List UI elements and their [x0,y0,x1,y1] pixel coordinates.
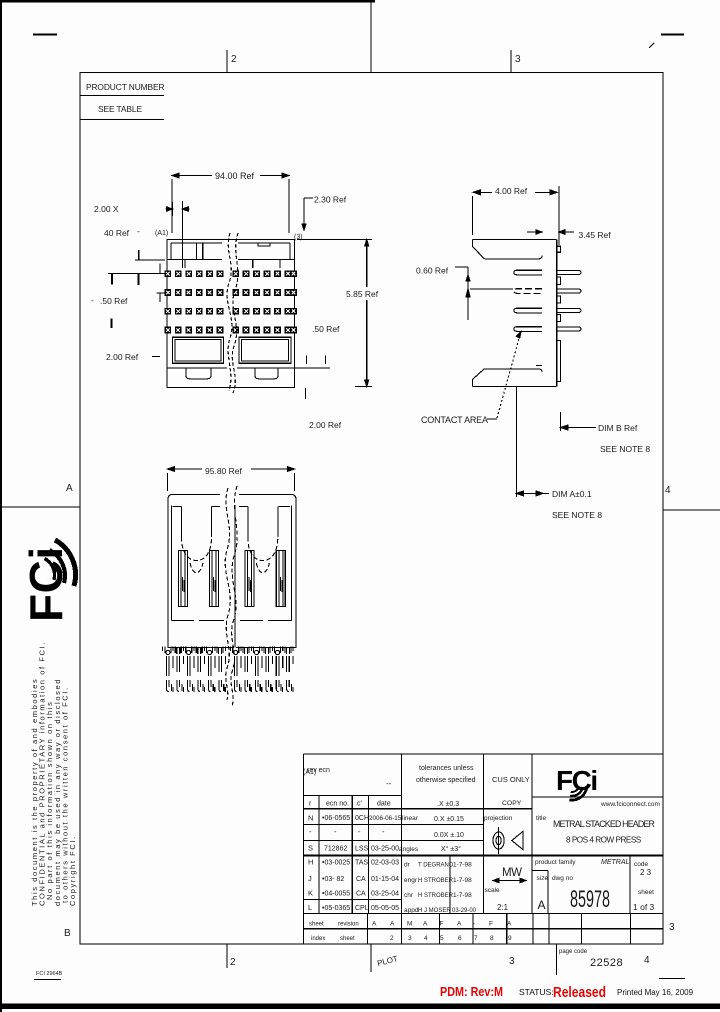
svg-text:2: 2 [390,935,394,942]
svg-text:A: A [66,483,73,494]
svg-text:5: 5 [440,935,444,942]
dim .50 row bracket [156,293,165,302]
svg-text:•05-0365: •05-0365 [322,905,350,912]
scan edge bar top [0,0,375,2]
vert: size-dwg divider [547,871,549,914]
shroud key tab left [197,243,203,260]
vert: projection cell right [531,754,533,914]
svg-text:dr: dr [404,862,411,869]
svg-text:H STROBER: H STROBER [418,878,454,884]
side body top wall [473,239,557,241]
svg-text:-: - [137,226,140,236]
projection symbol inner [496,836,501,844]
product number box line1 [80,95,164,97]
blade pin 4 [514,327,542,332]
slot 4 pin tip [280,577,282,592]
shroud floor line left [167,259,222,261]
svg-text:H STROBER: H STROBER [418,893,454,899]
dim 4.00 arrowheads [473,190,557,195]
svg-text:3: 3 [408,935,412,942]
ecn row line3 / tol line3 [304,839,484,841]
svg-text:--: -- [386,779,392,788]
svg-text:.X ±0.3: .X ±0.3 [437,801,459,808]
dim 5.85 arrowheads [365,240,369,387]
pitch dim tick [171,202,173,216]
sheet strip dividers [368,914,631,944]
svg-text:DIM B Ref: DIM B Ref [598,423,638,433]
svg-text:-: - [91,295,94,305]
front view body outline [167,240,295,388]
title block bottom of main [304,913,664,915]
press tab 1-2 [557,277,561,285]
confidential text vertical left margin [30,641,77,906]
dim 5.00 arrow ticks [112,274,139,285]
svg-text:CA: CA [356,891,366,898]
svg-text:22528: 22528 [590,957,623,969]
svg-text:tolerances unless: tolerances unless [419,765,474,772]
svg-text:title: title [536,815,547,822]
svg-text:DIM A±0.1: DIM A±0.1 [552,489,592,499]
contact row 3 [164,308,171,315]
slot 3 pin tip [249,577,251,592]
ecn table top [304,794,402,796]
svg-text:revision: revision [338,922,359,928]
standoff notch left [186,368,211,379]
U pocket right flares [239,506,290,508]
svg-text:8: 8 [490,935,494,942]
svg-text:712862: 712862 [324,846,347,853]
svg-text:linear: linear [402,815,419,822]
dim 95.80 arrowheads [168,467,295,472]
svg-text:sheet: sheet [340,936,355,942]
shroud inner top wall right [238,243,290,246]
side body left edge bottom [473,369,485,387]
svg-text:.50 Ref: .50 Ref [100,296,128,306]
svg-text:95.80 Ref: 95.80 Ref [205,466,242,476]
contact area leader dotted [497,335,520,418]
vert: tolerance cell right [482,754,484,914]
svg-text:A: A [423,921,428,928]
svg-text:rev ecn: rev ecn [307,767,330,774]
registration dash top left [33,34,57,36]
svg-text:page code: page code [559,949,588,955]
svg-text:01-15-04: 01-15-04 [371,876,399,883]
svg-text:PRODUCT NUMBER: PRODUCT NUMBER [86,82,165,92]
svg-text:2.00 X: 2.00 X [94,204,119,214]
vert: dr-date divider [449,855,451,913]
svg-text:T DEGRAND: T DEGRAND [418,863,454,869]
svg-text:2006-06-15: 2006-06-15 [369,815,402,822]
svg-text:L: L [308,903,312,912]
svg-text:3: 3 [509,956,515,967]
side body bottom wall [473,385,557,387]
svg-text:0CH: 0CH [355,815,369,822]
contact slot 1 [178,551,187,607]
dim 5.00 extension line upper [135,250,165,260]
svg-text:ecn no.: ecn no. [326,801,349,808]
ecn row line2 / tol line2 [304,824,484,826]
svg-text:COPY: COPY [502,800,522,807]
U pocket right bottom [248,537,278,573]
svg-text:9: 9 [508,935,512,942]
blade pin 2 [514,289,542,294]
leader 2.00 left [152,356,160,358]
shroud inner top wall left [171,242,222,244]
svg-text:PDM: Rev:M: PDM: Rev:M [440,985,503,999]
svg-text:FCI 2964B: FCI 2964B [36,971,63,977]
svg-text:-: - [382,827,385,836]
contact area leader dash [487,418,497,420]
svg-text:Copyright FCI.: Copyright FCI. [68,835,77,906]
through pin 1 [557,270,581,274]
svg-text:SEE NOTE 8: SEE NOTE 8 [552,510,602,520]
dim 94.00 line [172,175,289,177]
dim 4.00 extension right [558,186,560,245]
break line left wave [227,233,232,391]
svg-text:A: A [390,921,395,928]
side body left edge top [473,240,485,259]
svg-text:03-29-00: 03-29-00 [452,908,477,914]
vert: code-sheet col [629,855,631,913]
zone tick top 2 [226,50,228,72]
svg-text:2: 2 [231,54,237,65]
contact row 4 [164,327,171,334]
fold tick bottom center [370,944,372,972]
svg-text:•06-0565: •06-0565 [322,815,350,822]
svg-text:(3): (3) [294,234,303,241]
through pin 2 [557,289,581,293]
svg-text:A: A [372,921,377,928]
svg-text:F: F [489,921,493,928]
svg-text:1-7-98: 1-7-98 [453,862,472,869]
cavity floor bottom [484,365,542,372]
FCI logo left margin arcs [45,540,76,586]
vert: major divider [400,754,402,944]
svg-text:7: 7 [474,935,478,942]
U pocket left bottom [182,537,212,573]
svg-text:1 of 3: 1 of 3 [633,902,655,912]
break wave left [225,488,230,700]
svg-text:03-25-04: 03-25-04 [371,891,399,898]
svg-text:c': c' [357,801,362,808]
standoff notch right [255,368,278,379]
press tab top [557,246,561,252]
svg-text:4: 4 [644,955,650,966]
slot 1 pin tip [182,577,184,592]
blade pin 1 [514,270,542,275]
svg-text:METRAL STACKED HEADER: METRAL STACKED HEADER [553,819,654,829]
svg-text:angles: angles [399,846,419,853]
FCI logo title block [556,765,597,800]
svg-text:3: 3 [515,54,521,65]
svg-text:4: 4 [665,485,671,496]
title block page-code tick [556,944,558,975]
scan edge bar bottom [0,1004,720,1010]
dim 5.00 extension line lower [108,264,167,274]
svg-text:-: - [309,827,312,836]
U pocket right sides [248,507,278,538]
dim 3.45 arrows [527,230,574,234]
svg-text:40 Ref: 40 Ref [104,228,130,238]
svg-text:appd: appd [404,907,419,914]
svg-text:0.X ±0.15: 0.X ±0.15 [434,816,464,823]
size header line [531,870,548,872]
svg-text:PLOT: PLOT [376,954,399,968]
svg-text:CUS ONLY: CUS ONLY [492,775,530,784]
dim 2.00 foot extension [305,388,307,399]
vert: rev letter col [318,795,320,913]
dim tick lower left [111,319,113,329]
svg-text:3: 3 [669,922,675,933]
svg-text:2.30 Ref: 2.30 Ref [314,195,347,205]
vert: chk col [367,795,369,913]
svg-text:K: K [308,889,313,898]
contact slot 3 [245,551,254,607]
logo cell bottom [532,796,663,798]
press tab 2-3 [557,296,561,303]
svg-text:Released: Released [553,985,606,1001]
svg-text:-: - [334,827,337,836]
printed date overline [659,978,685,980]
blade pin 3 [514,308,542,313]
svg-text:METRAL: METRAL [601,859,630,866]
zone divider right [663,509,720,511]
svg-text:size: size [537,875,549,882]
svg-text:S: S [308,844,313,853]
form number underline [34,979,61,981]
svg-text:date: date [377,801,391,808]
svg-text:2.00 Ref: 2.00 Ref [309,420,342,430]
ecn row line K-L [304,898,402,900]
svg-text:SEE NOTE 8: SEE NOTE 8 [600,444,650,454]
svg-text:r: r [309,801,312,808]
dim A arrow [516,491,549,496]
scan edge bar left [0,0,2,1012]
svg-text:LSS: LSS [355,846,369,853]
svg-text:2 3: 2 3 [640,868,652,877]
svg-text:STATUS:: STATUS: [519,987,554,997]
svg-text:product family: product family [535,859,576,866]
pin shoulders row [163,647,173,654]
svg-text:•03- 82: •03- 82 [322,876,344,883]
svg-text:-: - [358,827,361,836]
svg-text:02-03-03: 02-03-03 [371,860,399,867]
dim 0.60 arrowheads [466,275,470,297]
break line right wave [232,233,238,393]
svg-text:index: index [311,936,325,942]
svg-text:4: 4 [424,935,428,942]
svg-text:chr: chr [404,892,414,899]
stray mark top right [649,43,654,48]
dim A extension [515,386,517,497]
side body right edge [556,240,558,387]
svg-text:•03-0025: •03-0025 [322,860,350,867]
dim B arrow [561,425,596,430]
svg-text:otherwise specified: otherwise specified [416,777,476,784]
svg-text:dwg no: dwg no [552,875,573,882]
slot 2 pin tip [213,577,215,592]
pin shafts [167,656,170,676]
svg-text:0.60 Ref: 0.60 Ref [416,266,449,276]
svg-text:05-05-05: 05-05-05 [371,905,399,912]
FCI logo vertical left margin [20,546,72,622]
bottom view outline left half [168,494,232,647]
contact field rows [164,270,297,333]
svg-text:A: A [507,921,512,928]
ecn header bottom / tol line1 / cus bottom [304,808,533,810]
svg-text:0.0X ±.10: 0.0X ±.10 [434,832,464,839]
svg-text:6: 6 [458,935,462,942]
svg-text:Printed May 16, 2009: Printed May 16, 2009 [617,988,694,997]
svg-text:MW: MW [502,867,522,879]
dim 4.00 extension left [472,196,474,235]
svg-text:.50 Ref: .50 Ref [312,324,340,334]
pitch dim arrows [166,207,190,211]
press tab bottom long [557,341,561,382]
svg-text:1-7-98: 1-7-98 [453,892,472,899]
shroud floor line right [238,259,295,261]
section line thick [304,854,664,856]
inner wall left [172,506,225,621]
svg-text:2: 2 [230,957,236,968]
dim 2.30 leader [304,198,313,227]
contact row 1 [164,270,171,277]
contact slot 2 [209,551,218,607]
title block left edge [303,754,305,944]
break wave right [231,486,237,706]
card slot right inner [242,340,289,362]
card slot left inner [175,340,221,362]
projection symbol circle [493,832,504,849]
svg-text:X° ±3°: X° ±3° [441,845,461,853]
U pocket left flares [173,506,221,508]
MW arrow [493,878,526,882]
svg-text:SEE TABLE: SEE TABLE [98,104,142,114]
svg-text:code: code [634,861,648,868]
svg-text:4.00 Ref: 4.00 Ref [495,186,528,196]
svg-text:CPL: CPL [355,905,369,912]
fold line top center [370,0,372,72]
svg-text:J: J [308,874,312,883]
svg-text:2.00 Ref: 2.00 Ref [106,352,139,362]
dim 95.80 extension lines [168,473,295,491]
dim 4.00 line [473,191,557,193]
svg-text:F: F [440,921,444,928]
svg-text:sheet: sheet [309,922,324,928]
dim 5.85 extension lines [297,240,372,387]
cavity floor top [484,256,542,259]
svg-text:H: H [308,858,313,867]
contact area arrowhead [516,332,521,339]
card slot left outer [173,337,224,363]
bottom step line [167,367,295,369]
svg-text:(A1): (A1) [155,230,168,237]
svg-text:2:1: 2:1 [497,903,509,912]
svg-text:94.00 Ref: 94.00 Ref [215,171,255,181]
registration dash top right [661,34,684,36]
zone divider left [0,506,80,508]
svg-text:H J MOSER: H J MOSER [418,908,451,914]
svg-text:3.45 Ref: 3.45 Ref [579,230,612,240]
title block outer top [304,753,664,755]
zone tick top 3 [510,50,512,72]
svg-text:scale: scale [485,887,501,894]
dim B extension [560,412,562,431]
dim 2.30 arrowhead [302,224,306,230]
dim 0.60 bracket [455,267,468,320]
sheet strip mid line [304,928,664,930]
dim 40ref extension line [181,201,183,268]
svg-text:03-25-00: 03-25-00 [371,846,399,853]
svg-text:•04-0055: •04-0055 [322,891,350,898]
card slot right outer [239,337,291,363]
dim .50 ticks [295,356,331,368]
contact row 2 [164,289,171,296]
pin feet [167,680,170,692]
svg-text:N: N [308,814,313,823]
product number box line2 [80,119,164,121]
inner wall right [240,506,292,621]
svg-text:85978: 85978 [570,886,610,913]
through pin 3 [557,308,581,312]
svg-text:engr: engr [404,877,418,884]
pin field [163,647,294,693]
svg-text:B: B [64,928,71,939]
projection symbol axis [498,827,500,854]
projection symbol cone [512,832,523,850]
svg-text:M: M [407,921,412,928]
svg-text:CA: CA [356,876,366,883]
press tab 3-4 [557,315,561,322]
svg-text:A: A [538,898,546,912]
svg-text:5.85 Ref: 5.85 Ref [346,289,379,299]
svg-text:A: A [457,921,462,928]
svg-text:-: - [473,921,475,928]
svg-text:1-7-98: 1-7-98 [453,877,472,884]
svg-text:TAS: TAS [355,860,368,867]
zone tick bottom 2 [226,944,228,968]
dim 0.60 extension [470,288,513,290]
through pin 4 [557,327,581,331]
bottom view outline right half [235,494,296,647]
drawing frame border [80,73,663,945]
svg-text:www.fciconnect.com: www.fciconnect.com [600,801,660,808]
shroud hidden stubs [185,260,280,269]
svg-text:CONTACT AREA: CONTACT AREA [421,415,488,425]
svg-text:8 POS 4 ROW PRESS: 8 POS 4 ROW PRESS [566,836,642,845]
dim 94.00 arrowheads [172,173,289,178]
svg-text:sheet: sheet [638,889,654,896]
shroud inner side walls [171,243,290,260]
svg-text:projection: projection [484,815,513,822]
U pocket left sides [182,507,212,538]
dim 5.85 line [366,240,368,387]
dim 94.00 extension lines [172,179,289,233]
contact slot 4 [276,551,285,607]
dim 95.80 line [168,468,295,470]
vert: ecn col [351,795,353,913]
